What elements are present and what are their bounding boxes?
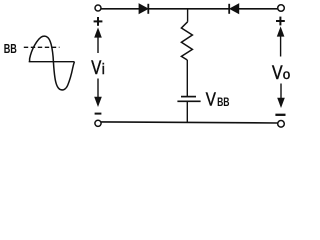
- Vi down arrow: [94, 79, 102, 108]
- plus sign (Vi +): [94, 17, 103, 26]
- sine wave curve: [30, 36, 75, 90]
- node: junction of diodes and resistor on top rail: [187, 9, 189, 22]
- battery VBB (short top plate, long bottom plate): [177, 97, 200, 102]
- diode D2 (cathode left, anode right): [229, 4, 239, 14]
- svg-text:BB: BB: [217, 97, 230, 110]
- svg-text:i: i: [102, 61, 105, 78]
- wire: top rail left segment: [101, 8, 139, 10]
- label Vi: [91, 56, 105, 79]
- label BB (waveform bias level): [4, 42, 17, 56]
- terminal: input top (open circle): [95, 5, 101, 11]
- wire: top rail middle-left segment: [148, 8, 229, 10]
- svg-text:V: V: [272, 61, 283, 83]
- Vi up arrow: [94, 27, 102, 53]
- dashed VBB level line: [24, 46, 60, 48]
- resistor R (vertical zigzag): [181, 22, 192, 60]
- wire: top rail right segment: [239, 8, 278, 10]
- diode D1 (anode left, cathode right): [139, 4, 148, 14]
- minus sign (Vo -): [275, 114, 285, 116]
- wire: resistor to battery: [186, 60, 188, 97]
- terminal: input bottom (open circle): [95, 120, 101, 126]
- waveform axis line: [29, 61, 75, 63]
- svg-text:o: o: [283, 67, 291, 82]
- svg-text:V: V: [91, 56, 101, 79]
- wire: battery to bottom rail: [186, 101, 188, 122]
- plus sign (Vo +): [276, 17, 285, 26]
- terminal: output bottom (open circle): [278, 121, 285, 128]
- svg-text:V: V: [206, 89, 217, 110]
- label Vo: [272, 61, 290, 83]
- svg-text:BB: BB: [4, 42, 17, 56]
- Vo up arrow: [277, 26, 285, 56]
- terminal: output top (open circle): [278, 5, 285, 12]
- Vo down arrow: [277, 84, 285, 109]
- minus sign (Vi -): [95, 113, 102, 115]
- wire: bottom rail: [101, 122, 277, 123]
- label VBB: [206, 89, 230, 110]
